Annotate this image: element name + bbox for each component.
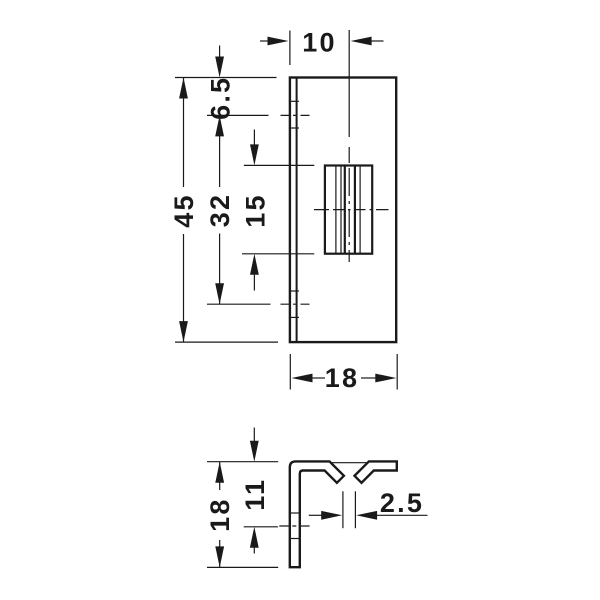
hinge center mark top bbox=[281, 114, 310, 116]
dim 32 line lower bbox=[219, 234, 221, 305]
slot vertical center line bbox=[348, 30, 350, 262]
dim 18 (side) down arrow bbox=[215, 546, 224, 567]
dim 15 ext line top bbox=[244, 164, 314, 166]
dim 15 ext line bottom bbox=[242, 253, 314, 255]
leg tick 2 bbox=[289, 538, 301, 540]
bracket profile left part (side view) bbox=[290, 461, 344, 567]
dim 2.5 right arrow bbox=[356, 511, 427, 520]
svg-text:6.5: 6.5 bbox=[206, 76, 236, 120]
hinge center mark bottom bbox=[281, 303, 310, 305]
dim 18 (side) line lower bbox=[219, 540, 221, 567]
dim 45 line upper bbox=[183, 78, 185, 188]
dim 32 up arrow bbox=[215, 115, 224, 136]
svg-text:45: 45 bbox=[169, 193, 199, 227]
dim 45 line lower bbox=[183, 234, 185, 342]
dim 18 (side) up arrow bbox=[215, 462, 224, 483]
dim 15 bottom arrow bbox=[250, 254, 259, 291]
leg tick 1 bbox=[289, 512, 301, 514]
dim 18 (side) ext bottom bbox=[207, 566, 278, 568]
dim 18 ext line left bbox=[289, 354, 291, 390]
slot inner thick line right bbox=[354, 166, 356, 254]
dim 11 bottom arrow bbox=[250, 527, 259, 554]
plate outline (front view) bbox=[290, 78, 396, 343]
dim 6.5 top arrow bbox=[215, 46, 224, 78]
svg-text:18: 18 bbox=[325, 363, 359, 393]
dim 18 left arrow bbox=[292, 374, 326, 383]
dim 10 left arrow bbox=[260, 37, 289, 46]
dim 11 ext line bottom bbox=[244, 526, 278, 528]
slot inner line 1 bbox=[335, 166, 337, 254]
fold tick upper 2 bbox=[289, 127, 299, 129]
plate fold line bbox=[296, 78, 298, 343]
fold tick lower 1 bbox=[289, 290, 299, 292]
dim 32 down arrow bbox=[215, 283, 224, 304]
dim 45 top ext line bbox=[175, 77, 277, 79]
dim 45 bottom ext line bbox=[175, 341, 278, 343]
slot inner line 2 bbox=[340, 166, 342, 254]
dim 45 up arrow bbox=[179, 78, 188, 99]
slot inner line 3 bbox=[359, 166, 361, 254]
dim 2.5 left arrow bbox=[309, 511, 342, 520]
dim 10 right arrow bbox=[351, 37, 384, 46]
dim 10 ext line left bbox=[289, 31, 291, 66]
svg-text:11: 11 bbox=[240, 478, 270, 511]
dim 15 top arrow bbox=[250, 130, 259, 166]
svg-text:10: 10 bbox=[302, 28, 336, 58]
slot outline bbox=[325, 166, 372, 254]
fold tick upper 1 bbox=[289, 100, 299, 102]
dim 18 (side) line upper bbox=[219, 462, 221, 490]
dim 18 (side) ext top bbox=[207, 461, 278, 463]
dim 32 ext line top bbox=[207, 114, 269, 116]
bracket profile right part bbox=[355, 461, 397, 482]
dim 32 ext line bottom bbox=[207, 303, 271, 305]
dim 32 line upper bbox=[219, 115, 221, 187]
slot horizontal center line bbox=[314, 209, 390, 211]
dim 18 ext line right bbox=[396, 354, 398, 390]
leg center mark bbox=[279, 525, 309, 527]
slot inner thick line left bbox=[344, 166, 346, 254]
dim 2.5 ext line left bbox=[342, 491, 344, 528]
notch back thin line bbox=[331, 462, 368, 464]
dim 11 top arrow bbox=[250, 428, 259, 462]
svg-text:18: 18 bbox=[205, 497, 235, 531]
svg-text:32: 32 bbox=[205, 193, 235, 227]
svg-text:2.5: 2.5 bbox=[380, 488, 424, 518]
fold tick lower 2 bbox=[289, 316, 299, 318]
dim 2.5 ext line right bbox=[354, 491, 356, 528]
dim 45 down arrow bbox=[179, 321, 188, 342]
dim 18 right arrow bbox=[361, 374, 396, 383]
svg-text:15: 15 bbox=[240, 193, 270, 227]
